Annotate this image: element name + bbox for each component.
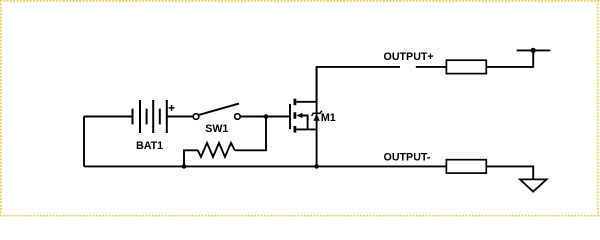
- source lead: [296, 128, 316, 130]
- junction source-bottom rail: [314, 164, 319, 169]
- wire left rail vertical: [83, 117, 85, 167]
- svg-text:BAT1: BAT1: [136, 140, 163, 152]
- body diode of M1: [312, 111, 322, 121]
- wire mosfet source/drain vertical: [316, 67, 318, 166]
- wire battery negative to left rail: [84, 116, 133, 118]
- battery BAT1: [133, 100, 167, 133]
- junction resistor-bottom rail: [182, 164, 187, 169]
- ground: [520, 179, 547, 191]
- svg-text:M1: M1: [321, 112, 336, 124]
- resistor (OUTPUT- series, box): [446, 160, 486, 173]
- terminal dot OUTPUT+: [531, 48, 536, 53]
- wire resistor to bottom rail: [184, 150, 198, 166]
- wire OUTPUT+ to series resistor: [416, 66, 447, 68]
- mosfet M1: [290, 99, 317, 133]
- wire battery positive to SW1: [167, 116, 193, 118]
- svg-text:OUTPUT-: OUTPUT-: [384, 151, 431, 163]
- resistor (OUTPUT+ series, box): [446, 60, 486, 73]
- drain lead: [296, 101, 316, 103]
- switch SW1: [193, 104, 240, 120]
- battery plus sign: [169, 105, 175, 111]
- junction gate node: [264, 114, 269, 119]
- wire resistor to terminal: [486, 50, 533, 67]
- wire gate node down to resistor: [235, 117, 266, 151]
- wire drain up to OUTPUT+: [317, 67, 400, 102]
- body lead: [302, 116, 308, 130]
- wire SW1 to gate node: [240, 116, 290, 118]
- wire bottom rail: [84, 165, 446, 167]
- svg-text:SW1: SW1: [205, 123, 228, 135]
- svg-text:OUTPUT+: OUTPUT+: [384, 51, 434, 63]
- wire OUTPUT- resistor to ground: [486, 166, 533, 179]
- body arrow: [296, 113, 302, 118]
- channel bar top: [293, 99, 296, 106]
- resistor (zigzag, gate pulldown): [198, 143, 235, 157]
- channel bar middle: [293, 112, 296, 119]
- terminal bar OUTPUT+: [517, 49, 551, 51]
- gate line: [289, 104, 291, 129]
- channel bar bottom: [293, 126, 296, 133]
